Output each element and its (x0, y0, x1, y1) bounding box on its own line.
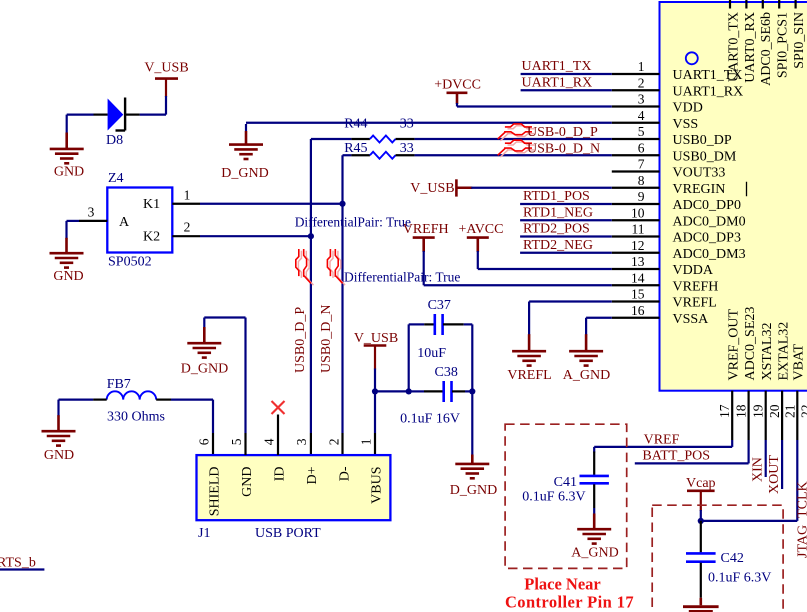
svg-text:ID: ID (272, 467, 287, 482)
svg-text:ADC0_DP0: ADC0_DP0 (673, 198, 741, 213)
svg-text:GND: GND (240, 467, 255, 497)
svg-text:3: 3 (88, 205, 95, 220)
J1 pin name GND (240, 467, 255, 497)
ground GND (FB7) (42, 415, 76, 463)
IC pin 22 number (799, 405, 807, 419)
svg-text:UART1_RX: UART1_RX (522, 76, 593, 91)
IC pin 15 lead (612, 300, 660, 302)
svg-text:13: 13 (631, 254, 645, 269)
svg-text:XOUT: XOUT (767, 455, 782, 494)
svg-text:GND: GND (44, 448, 74, 463)
wire USB0 D N column (vertical) (341, 155, 343, 455)
label C41 (554, 475, 577, 490)
svg-text:A: A (119, 215, 130, 230)
IC pin 15 number (631, 287, 645, 302)
svg-text:DifferentialPair: True: DifferentialPair: True (295, 214, 411, 229)
wire RTD2_POS to pin 11 (520, 235, 612, 237)
svg-text:VREF_OUT: VREF_OUT (726, 308, 741, 380)
svg-text:VDDA: VDDA (673, 263, 714, 278)
IC pin 11 number (632, 222, 645, 237)
IC pin 12 name ADC0_DM3 (673, 247, 746, 262)
value 330 Ohms (107, 410, 165, 425)
ferrite bead FB7 (93, 391, 171, 399)
svg-text:SHIELD: SHIELD (207, 467, 222, 517)
value 0.1uF 6.3V (C42) (708, 571, 771, 586)
wire C38 left lead (409, 390, 424, 392)
label J1 (198, 526, 210, 541)
svg-text:Z4: Z4 (108, 171, 124, 186)
svg-text:USB0_DP: USB0_DP (673, 133, 732, 148)
IC pin 10 number (631, 205, 645, 220)
wire FB7 to GND (59, 400, 94, 417)
IC pin 18 name ADC0_SE23 (743, 307, 758, 381)
IC top pin name UART0_RX (743, 12, 758, 83)
svg-text:ADC0_DM0: ADC0_DM0 (673, 214, 746, 229)
IC top pin stub UART0_TX (729, 0, 731, 9)
IC top pin name SPI0_PCS1 (776, 12, 791, 78)
svg-text:USB PORT: USB PORT (255, 526, 321, 541)
svg-text:VOUT33: VOUT33 (673, 166, 726, 181)
IC pin 1 name UART1_TX (673, 68, 743, 83)
IC pin 13 number (631, 254, 645, 269)
IC pin 2 name UART1_RX (673, 84, 744, 99)
svg-text:VSS: VSS (673, 117, 699, 132)
power port V_USB (VBUS) (354, 331, 398, 346)
J1 pin name ID (272, 467, 287, 482)
svg-text:D_GND: D_GND (450, 483, 497, 498)
svg-text:0.1uF 6.3V: 0.1uF 6.3V (708, 571, 771, 586)
J1 pin 2 number (327, 438, 342, 445)
dashed directive box (C41 place-near) (505, 424, 627, 568)
svg-text:33: 33 (400, 117, 414, 132)
label FB7 (107, 377, 131, 392)
IC pin 5 lead (612, 138, 660, 140)
text cursor artifact after VREGIN (746, 182, 748, 197)
wire UART1_TX to pin 1 (521, 73, 612, 75)
svg-text:2: 2 (327, 438, 342, 445)
ground GND (D8) (50, 133, 84, 180)
IC pin 17 lead (731, 391, 733, 440)
IC pin 11 name ADC0_DP3 (673, 231, 741, 246)
svg-text:D8: D8 (106, 133, 123, 148)
wire C41 to A_GND (593, 508, 595, 529)
svg-text:V_USB: V_USB (354, 331, 398, 346)
svg-text:1: 1 (184, 188, 191, 203)
svg-text:RTS_b: RTS_b (0, 556, 36, 571)
wire pin 15 to VREFL ground (529, 302, 612, 336)
wire UART1_RX to pin 2 (521, 89, 612, 91)
value 10uF (417, 346, 446, 361)
power port V_USB (top) (144, 61, 188, 79)
Z4 pin 2 lead (172, 235, 200, 237)
J1 pin name SHIELD (207, 467, 222, 517)
svg-text:20: 20 (767, 404, 782, 418)
ground GND (Z4) (50, 238, 84, 284)
IC U1 microcontroller body (660, 2, 807, 391)
svg-text:VREF: VREF (644, 433, 680, 448)
wire V_USB down to VBUS junction (374, 346, 376, 392)
IC pin 20 name EXTAL32 (776, 322, 791, 381)
IC pin 16 lead (612, 317, 660, 319)
IC top pin stub SPI0_PCS1 (778, 0, 780, 9)
J1 pin name D+ (305, 466, 320, 484)
svg-text:33: 33 (400, 141, 414, 156)
wire RTS_b stub (0, 568, 44, 570)
wire RTD1_NEG to pin 10 (520, 219, 612, 221)
svg-text:6: 6 (197, 438, 212, 445)
IC U1 pin-1 indicator circle (686, 52, 698, 64)
IC pin 13 name VDDA (673, 263, 714, 278)
value 33 (R44) (400, 117, 414, 132)
svg-text:16: 16 (631, 303, 645, 318)
power port +DVCC (434, 78, 481, 105)
ground D_GND (C38) (450, 455, 497, 498)
svg-text:GND: GND (53, 269, 83, 284)
value 33 (R45) (400, 141, 414, 156)
wire K2 to D_P column (200, 235, 311, 237)
Z4 pin 3 number (88, 205, 95, 220)
svg-text:7: 7 (638, 157, 645, 172)
svg-text:VDD: VDD (673, 101, 703, 116)
svg-text:5: 5 (229, 438, 244, 445)
svg-text:VREFH: VREFH (673, 279, 719, 294)
wire R45 left segment (343, 154, 370, 156)
IC pin 21 lead (796, 391, 798, 440)
net label USB0_D_P (vertical) (293, 307, 308, 373)
net label VREF (644, 433, 680, 448)
J1 pin 4 number (262, 438, 277, 445)
IC pin 7 name VOUT33 (673, 166, 726, 181)
IC pin 13 lead (612, 268, 660, 270)
IC pin 16 name VSSA (673, 312, 710, 327)
ground (C42, clipped) (683, 607, 719, 612)
svg-text:A_GND: A_GND (571, 545, 618, 560)
svg-text:D_GND: D_GND (221, 166, 268, 181)
svg-text:UART0_RX: UART0_RX (743, 12, 758, 83)
net label XOUT (vertical) (767, 455, 782, 494)
note DifferentialPair True (1) (295, 214, 411, 229)
IC pin 9 name ADC0_DP0 (673, 198, 741, 213)
power port VREFH (403, 222, 449, 252)
svg-text:RTD2_NEG: RTD2_NEG (523, 238, 593, 253)
svg-text:4: 4 (638, 108, 645, 123)
svg-text:D+: D+ (305, 466, 320, 484)
wire pin 19 stub XIN (765, 440, 767, 477)
J1 pin name VBUS (369, 467, 384, 504)
svg-text:C38: C38 (435, 365, 458, 380)
svg-text:4: 4 (262, 438, 277, 445)
capacitor C38 (424, 381, 465, 402)
net label RTD2_NEG (523, 238, 593, 253)
svg-text:10: 10 (631, 205, 645, 220)
IC pin 7 lead (612, 170, 660, 172)
IC top pin name UART0_TX (726, 12, 741, 82)
svg-text:ADC0_SE6b: ADC0_SE6b (759, 12, 774, 86)
label USB PORT (255, 526, 321, 541)
svg-text:ADC0_DM3: ADC0_DM3 (673, 247, 746, 262)
svg-text:RTD1_NEG: RTD1_NEG (523, 205, 593, 220)
J1 pin 1 number (359, 438, 374, 445)
net label RTS_b (clipped) (0, 556, 36, 571)
svg-text:Controller Pin 17: Controller Pin 17 (505, 593, 634, 612)
label R45 (344, 141, 367, 156)
junction dot Vcap/C42 (698, 518, 704, 524)
Z4 pin name K1 (143, 197, 160, 212)
svg-text:C42: C42 (721, 551, 744, 566)
svg-text:R44: R44 (344, 117, 367, 132)
IC pin 15 name VREFL (673, 296, 717, 311)
Z4 pin name K2 (143, 230, 160, 245)
IC pin 17 name VREF_OUT (726, 308, 741, 380)
IC pin 6 number (638, 140, 645, 155)
IC pin 17 number (717, 404, 732, 418)
wire K1 to D_N column (200, 203, 343, 205)
svg-text:Vcap: Vcap (686, 476, 716, 491)
connector J1 USB PORT body (197, 455, 391, 520)
svg-text:21: 21 (782, 405, 797, 419)
IC pin 18 number (734, 404, 749, 418)
IC pin 6 lead (612, 154, 660, 156)
svg-text:EXTAL32: EXTAL32 (776, 322, 791, 381)
wire junction to C38 branch (375, 390, 409, 392)
svg-text:+AVCC: +AVCC (459, 222, 504, 237)
IC pin 3 number (638, 92, 645, 107)
capacitor C42 (686, 521, 716, 598)
svg-text:K2: K2 (143, 230, 160, 245)
wire pin 20 stub XOUT (781, 440, 783, 489)
svg-text:VREFL: VREFL (673, 296, 717, 311)
IC pin 8 number (638, 173, 645, 188)
wire C38 right lead (465, 390, 472, 392)
differential pair glyph (USB-0_D_P) (498, 124, 535, 141)
wire Vcap down to junction (700, 491, 702, 521)
IC pin 12 number (631, 238, 645, 253)
wire junction to pin 21 (701, 440, 798, 521)
svg-text:3: 3 (638, 92, 645, 107)
net label BATT_POS (642, 448, 710, 463)
label D8 (106, 133, 123, 148)
svg-text:JTAG_TCLK: JTAG_TCLK (796, 481, 807, 558)
IC pin 21 name VBAT (792, 343, 807, 380)
svg-text:ADC0_DP3: ADC0_DP3 (673, 231, 741, 246)
junction dot VBUS/V_USB (372, 388, 378, 394)
svg-text:6: 6 (638, 140, 645, 155)
power port +AVCC (459, 222, 504, 252)
J1 pin 5 number (229, 438, 244, 445)
IC pin 2 number (638, 75, 645, 90)
ground D_GND (J1) (181, 327, 228, 376)
wire C42 to ground (clipped) (699, 598, 702, 606)
net label RTD2_POS (523, 222, 590, 237)
IC pin 10 lead (612, 219, 660, 221)
svg-text:RTD2_POS: RTD2_POS (523, 222, 590, 237)
wire diode anode to GND (67, 115, 94, 134)
svg-text:Place Near: Place Near (524, 575, 601, 594)
svg-text:9: 9 (638, 189, 645, 204)
ground VREFL (507, 334, 551, 383)
IC pin 1 number (638, 59, 645, 74)
wire down to D_GND (C38) (471, 391, 473, 455)
value 0.1uF 6.3V (C41) (522, 490, 585, 505)
ground A_GND (C41) (571, 529, 618, 560)
svg-text:BATT_POS: BATT_POS (642, 448, 710, 463)
svg-text:0.1uF 16V: 0.1uF 16V (400, 412, 460, 427)
svg-text:V_USB: V_USB (144, 61, 188, 76)
Z4 pin name A (119, 215, 130, 230)
wire D_GND to pin 4 VSS (246, 122, 612, 124)
IC pin 4 name VSS (673, 117, 699, 132)
differential pair glyph (D_N column) (327, 249, 345, 285)
wire C37 right to corner (464, 324, 473, 391)
wire VREFH to pin 14 (424, 251, 612, 285)
J1 pin 4 lead (no connect) (277, 415, 279, 456)
svg-text:UART1_TX: UART1_TX (522, 59, 592, 74)
svg-text:VBUS: VBUS (369, 467, 384, 504)
wire V_USB to diode cathode (140, 79, 166, 115)
wire VBUS junction down to J1 pin 1 (374, 391, 376, 455)
IC pin 21 number (782, 405, 797, 419)
IC top pin stub UART0_RX (745, 0, 747, 9)
IC pin 2 lead (612, 89, 660, 91)
svg-text:RTD1_POS: RTD1_POS (523, 189, 590, 204)
wire V_USB to pin 8 VREGIN (471, 187, 612, 189)
svg-text:USB0_D_N: USB0_D_N (319, 305, 334, 373)
svg-text:2: 2 (638, 75, 645, 90)
resistor R45 (370, 152, 396, 159)
J1 pin 5 lead (244, 433, 246, 455)
svg-text:+DVCC: +DVCC (434, 78, 481, 93)
svg-text:XIN: XIN (751, 457, 766, 482)
svg-text:1: 1 (638, 59, 645, 74)
power port Vcap (686, 476, 716, 491)
IC pin 3 lead (612, 105, 660, 107)
IC pin 8 lead (612, 187, 660, 189)
IC pin 16 number (631, 303, 645, 318)
IC pin 5 number (638, 124, 645, 139)
wire RTD2_NEG to pin 12 (520, 252, 612, 254)
IC pin 19 lead (765, 391, 767, 440)
svg-text:12: 12 (631, 238, 645, 253)
svg-text:R45: R45 (344, 141, 367, 156)
junction dot C38/D_GND (469, 388, 475, 394)
dashed directive box (C42) (652, 505, 783, 612)
net label USB0_D_N (vertical) (319, 305, 334, 373)
IC pin 4 lead (612, 122, 660, 124)
svg-text:USB0_D_P: USB0_D_P (293, 307, 308, 373)
svg-text:0.1uF 6.3V: 0.1uF 6.3V (522, 490, 585, 505)
wire FB7 to J1 pin 6 (171, 400, 213, 456)
wire R44 to pin 5 (396, 138, 612, 140)
svg-text:GND: GND (54, 165, 84, 180)
wire Z4 pin 3 to GND (67, 221, 80, 239)
IC pin 14 number (631, 270, 645, 285)
svg-text:2: 2 (184, 220, 191, 235)
IC top pin name SPI0_SIN (792, 12, 807, 69)
junction dot C37 branch (406, 388, 412, 394)
svg-text:3: 3 (294, 438, 309, 445)
svg-text:VREFL: VREFL (507, 368, 551, 383)
wire R45 to pin 6 (396, 154, 612, 156)
IC pin 9 lead (612, 203, 660, 205)
svg-text:SPI0_PCS1: SPI0_PCS1 (776, 12, 791, 78)
value 0.1uF 16V (400, 412, 460, 427)
svg-text:FB7: FB7 (107, 377, 131, 392)
net label RTD1_POS (523, 189, 590, 204)
IC pin 8 name VREGIN (673, 182, 726, 197)
svg-text:C37: C37 (428, 298, 451, 313)
IC pin 12 lead (612, 252, 660, 254)
net label UART1_TX (522, 59, 592, 74)
net label XIN (vertical) (751, 457, 766, 482)
net label RTD1_NEG (523, 205, 593, 220)
label SP0502 (108, 254, 152, 269)
svg-text:D_GND: D_GND (181, 361, 228, 376)
note Place Near (524, 575, 601, 594)
wire C37 branch up (409, 324, 425, 391)
svg-text:1: 1 (359, 438, 374, 445)
svg-text:18: 18 (734, 404, 749, 418)
J1 pin 6 number (197, 438, 212, 445)
svg-text:VREGIN: VREGIN (673, 182, 726, 197)
Z4 pin 3 lead (79, 220, 107, 222)
svg-text:SP0502: SP0502 (108, 254, 152, 269)
svg-text:DifferentialPair: True: DifferentialPair: True (344, 269, 460, 284)
svg-text:UART1_RX: UART1_RX (673, 84, 744, 99)
resistor R44 (370, 136, 396, 143)
label C37 (428, 298, 451, 313)
ground A_GND (VSSA) (563, 334, 610, 383)
svg-text:USB-0_D_P: USB-0_D_P (527, 125, 598, 140)
label Z4 (108, 171, 124, 186)
TVS array Z4 body (107, 188, 172, 253)
note Controller Pin 17 (505, 593, 634, 612)
IC pin 3 name VDD (673, 101, 703, 116)
svg-text:15: 15 (631, 287, 645, 302)
no-connect X on ID pin (272, 401, 285, 414)
net label USB-0_D_N (527, 141, 600, 156)
svg-text:USB0_DM: USB0_DM (673, 149, 737, 164)
wire +AVCC to pin 13 VDDA (478, 251, 612, 269)
label R44 (344, 117, 367, 132)
svg-text:14: 14 (631, 270, 645, 285)
wire pin 18 to BATT_POS (635, 440, 749, 463)
svg-text:330 Ohms: 330 Ohms (107, 410, 165, 425)
svg-text:XSTAL32: XSTAL32 (760, 323, 775, 381)
wire USB0 D P column (vertical) (310, 139, 312, 455)
label C42 (721, 551, 744, 566)
svg-text:10uF: 10uF (417, 346, 446, 361)
svg-text:C41: C41 (554, 475, 577, 490)
IC pin 20 lead (781, 391, 783, 440)
IC pin 5 name USB0_DP (673, 133, 732, 148)
svg-text:SPI0_SIN: SPI0_SIN (792, 12, 807, 69)
IC pin 1 lead (612, 73, 660, 75)
IC pin 19 number (751, 404, 766, 418)
IC pin 6 name USB0_DM (673, 149, 737, 164)
svg-text:K1: K1 (143, 197, 160, 212)
wire R44 left segment (311, 138, 370, 140)
junction dot K1/D_N (339, 201, 345, 207)
net label USB-0_D_P (527, 125, 598, 140)
svg-text:D-: D- (337, 466, 352, 481)
svg-text:17: 17 (717, 404, 732, 418)
note DifferentialPair True (2) (344, 269, 460, 284)
svg-text:VBAT: VBAT (792, 343, 807, 380)
label C38 (435, 365, 458, 380)
svg-text:USB-0_D_N: USB-0_D_N (527, 141, 600, 156)
svg-text:VSSA: VSSA (673, 312, 710, 327)
capacitor C41 (580, 452, 609, 509)
